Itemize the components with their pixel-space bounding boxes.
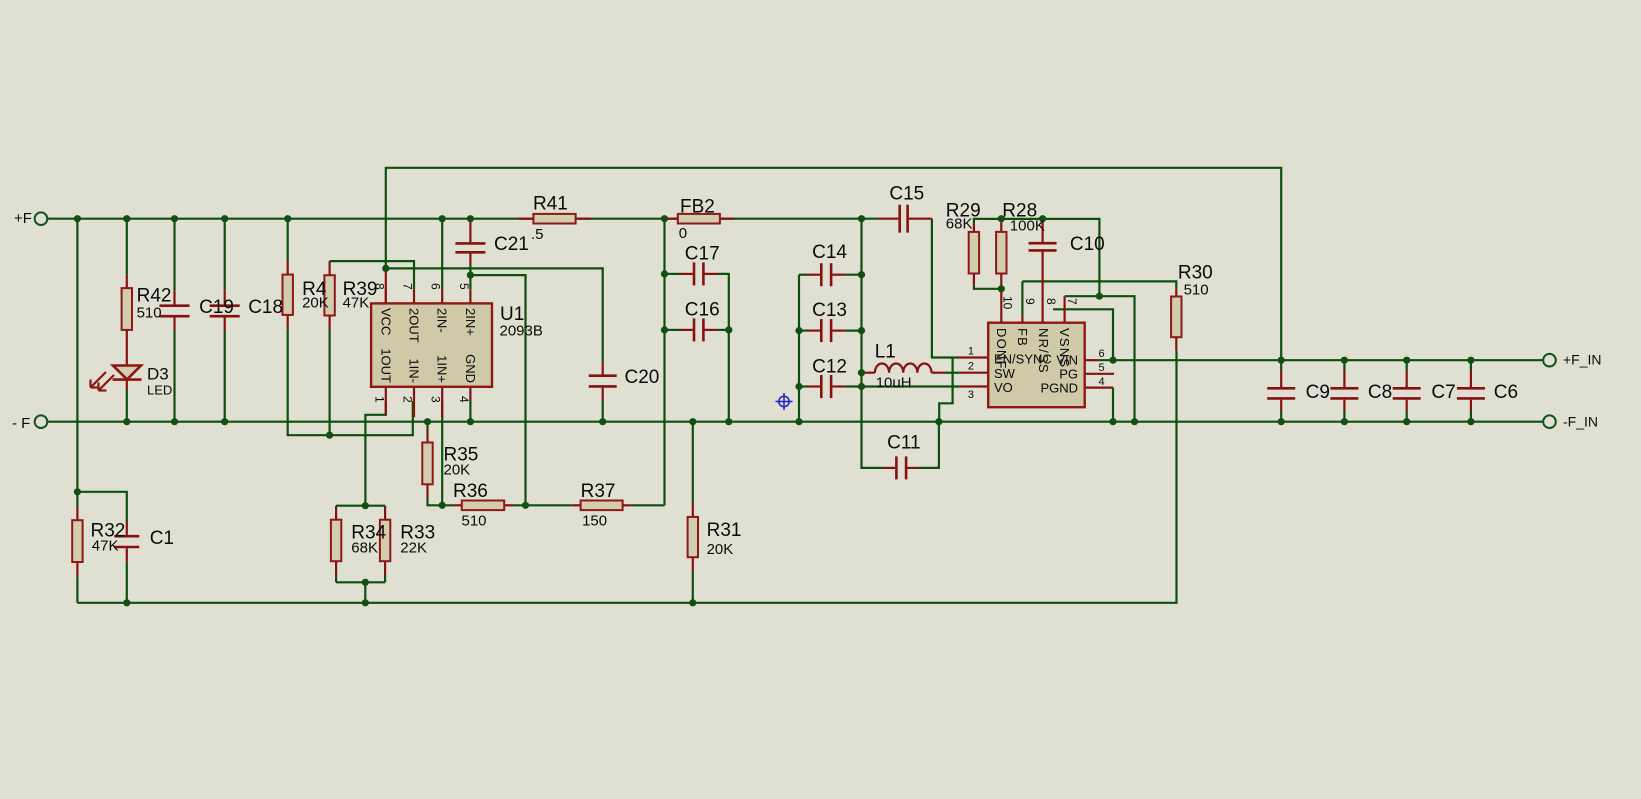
svg-text:- F: - F <box>12 415 30 432</box>
svg-text:10uH: 10uH <box>876 374 912 391</box>
svg-text:VCC: VCC <box>378 308 393 335</box>
svg-text:C7: C7 <box>1431 382 1455 403</box>
svg-text:2093B: 2093B <box>500 323 543 340</box>
svg-text:2: 2 <box>401 396 415 403</box>
svg-text:C8: C8 <box>1368 382 1392 403</box>
svg-text:2IN-: 2IN- <box>435 308 450 333</box>
svg-text:-F_IN: -F_IN <box>1563 414 1598 430</box>
svg-text:C21: C21 <box>494 234 529 255</box>
svg-text:R37: R37 <box>581 481 616 502</box>
svg-text:LED: LED <box>147 382 172 397</box>
svg-text:150: 150 <box>582 512 607 529</box>
svg-text:+F: +F <box>14 210 32 227</box>
svg-text:R30: R30 <box>1178 262 1213 283</box>
svg-text:6: 6 <box>1099 348 1105 360</box>
svg-text:C16: C16 <box>685 299 720 320</box>
svg-text:C15: C15 <box>889 183 924 204</box>
svg-text:1IN-: 1IN- <box>407 358 422 383</box>
svg-text:4: 4 <box>1099 376 1105 388</box>
svg-text:1IN+: 1IN+ <box>435 355 450 383</box>
svg-text:10: 10 <box>1001 296 1015 310</box>
svg-text:VIN: VIN <box>1056 353 1078 368</box>
svg-text:GND: GND <box>463 354 478 383</box>
svg-text:8: 8 <box>1044 298 1058 305</box>
svg-text:68K: 68K <box>351 540 378 557</box>
svg-text:47K: 47K <box>92 538 119 555</box>
svg-text:C14: C14 <box>812 242 847 263</box>
svg-text:7: 7 <box>401 283 415 290</box>
svg-text:510: 510 <box>1184 282 1209 299</box>
svg-text:SW: SW <box>994 366 1016 381</box>
svg-text:3: 3 <box>968 389 974 401</box>
svg-text:2IN+: 2IN+ <box>463 308 478 336</box>
svg-text:FB2: FB2 <box>680 197 715 218</box>
svg-text:2: 2 <box>968 360 974 372</box>
svg-text:C9: C9 <box>1306 382 1330 403</box>
svg-text:C19: C19 <box>199 297 234 318</box>
svg-text:510: 510 <box>462 512 487 529</box>
svg-text:22K: 22K <box>400 540 427 557</box>
svg-text:3: 3 <box>429 396 443 403</box>
svg-text:D3: D3 <box>147 365 169 384</box>
svg-text:EN/SYNC: EN/SYNC <box>994 352 1052 367</box>
svg-text:+F_IN: +F_IN <box>1563 352 1602 368</box>
svg-text:PG: PG <box>1059 367 1078 382</box>
svg-text:.5: .5 <box>531 226 544 243</box>
svg-text:R41: R41 <box>533 194 568 215</box>
svg-text:47K: 47K <box>343 294 370 311</box>
svg-text:L1: L1 <box>875 341 896 362</box>
svg-text:8: 8 <box>372 283 386 290</box>
svg-text:20K: 20K <box>302 294 329 311</box>
svg-text:1: 1 <box>372 396 386 403</box>
svg-text:VO: VO <box>994 380 1013 395</box>
svg-text:68K: 68K <box>946 216 973 233</box>
svg-text:2OUT: 2OUT <box>407 308 422 343</box>
svg-text:C12: C12 <box>812 357 847 378</box>
svg-text:5: 5 <box>1099 362 1105 374</box>
svg-text:20K: 20K <box>444 461 471 478</box>
svg-text:C18: C18 <box>248 297 283 318</box>
svg-text:1: 1 <box>968 346 974 358</box>
svg-text:R31: R31 <box>707 520 742 541</box>
svg-text:PGND: PGND <box>1040 381 1078 396</box>
svg-text:C11: C11 <box>887 433 920 454</box>
svg-text:510: 510 <box>137 305 162 322</box>
svg-text:100K: 100K <box>1010 217 1045 234</box>
svg-text:1OUT: 1OUT <box>378 348 393 383</box>
svg-text:C17: C17 <box>685 244 720 265</box>
svg-text:C10: C10 <box>1070 234 1105 255</box>
svg-text:6: 6 <box>429 283 443 290</box>
svg-text:C1: C1 <box>150 528 174 549</box>
svg-text:R36: R36 <box>453 481 488 502</box>
svg-text:9: 9 <box>1023 298 1037 305</box>
svg-text:C6: C6 <box>1494 382 1518 403</box>
svg-text:4: 4 <box>457 396 471 403</box>
svg-text:5: 5 <box>457 283 471 290</box>
svg-text:20K: 20K <box>707 541 734 558</box>
svg-text:C20: C20 <box>625 367 660 388</box>
svg-text:0: 0 <box>679 225 687 242</box>
svg-text:7: 7 <box>1065 298 1079 305</box>
svg-text:FB: FB <box>1015 328 1030 347</box>
svg-text:C13: C13 <box>812 300 847 321</box>
